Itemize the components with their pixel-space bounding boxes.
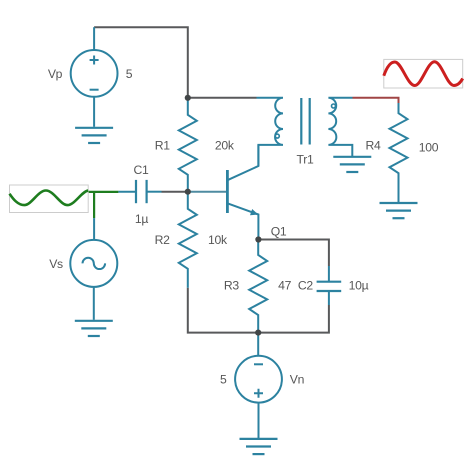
svg-text:C2: C2 [298,279,314,293]
voltage source Vs [70,218,117,320]
svg-text:Tr1: Tr1 [297,152,314,166]
core lines [301,98,309,145]
junction node base [185,189,191,195]
resistor R1 [179,98,197,192]
ground under Vs [75,321,113,336]
svg-text:10µ: 10µ [349,279,369,293]
junction node bottom rail [255,330,261,336]
ground under transformer secondary [333,157,371,172]
green probed wire: scope to C1 and Vs branch [88,192,118,218]
resistor R2 [179,192,197,288]
ground under R4 [380,203,418,218]
svg-text:5: 5 [220,373,227,387]
phase dot secondary [332,104,336,108]
transformer Tr1 [257,98,353,166]
primary winding [257,98,284,166]
resistor R4 [390,103,408,202]
green scope box [10,185,89,213]
wire bottom rail node to C2 bottom [258,305,329,333]
svg-text:R1: R1 [155,138,171,152]
junction node VCC/R1 [185,95,191,101]
svg-text:1µ: 1µ [135,212,148,226]
voltage source Vp [71,27,118,127]
svg-text:10k: 10k [208,233,228,247]
secondary winding [328,98,352,157]
ground under Vp [75,128,113,143]
wire VCC node to transformer primary [188,97,257,99]
svg-text:100: 100 [419,140,439,154]
capacitor C1 [118,180,161,203]
wire C1 to base node [162,191,188,193]
svg-text:20k: 20k [215,138,235,152]
svg-text:Vn: Vn [290,373,304,387]
svg-text:C1: C1 [134,163,150,177]
red scope box [384,59,463,88]
wire R2 bottom to bottom rail [188,288,258,333]
transistor Q1 [188,145,259,240]
resistor R3 [249,240,267,333]
svg-text:47: 47 [278,279,291,293]
wire VCC top: Vp top to R1 top node [94,27,188,98]
svg-text:R2: R2 [155,233,171,247]
junction node emitter Q1 [255,236,261,242]
voltage source Vn [235,333,282,438]
svg-text:R4: R4 [366,139,382,153]
red probed wire: transformer secondary to R4 [353,98,399,103]
wire Q1 emitter node to C2 top [258,240,329,267]
ground under Vn [240,439,278,454]
svg-text:R3: R3 [224,279,240,293]
svg-text:5: 5 [126,67,133,81]
phase dot primary [275,134,279,138]
capacitor C2 [317,266,342,305]
svg-text:Vp: Vp [48,67,63,81]
svg-text:Vs: Vs [49,257,63,271]
svg-text:Q1: Q1 [271,225,287,239]
